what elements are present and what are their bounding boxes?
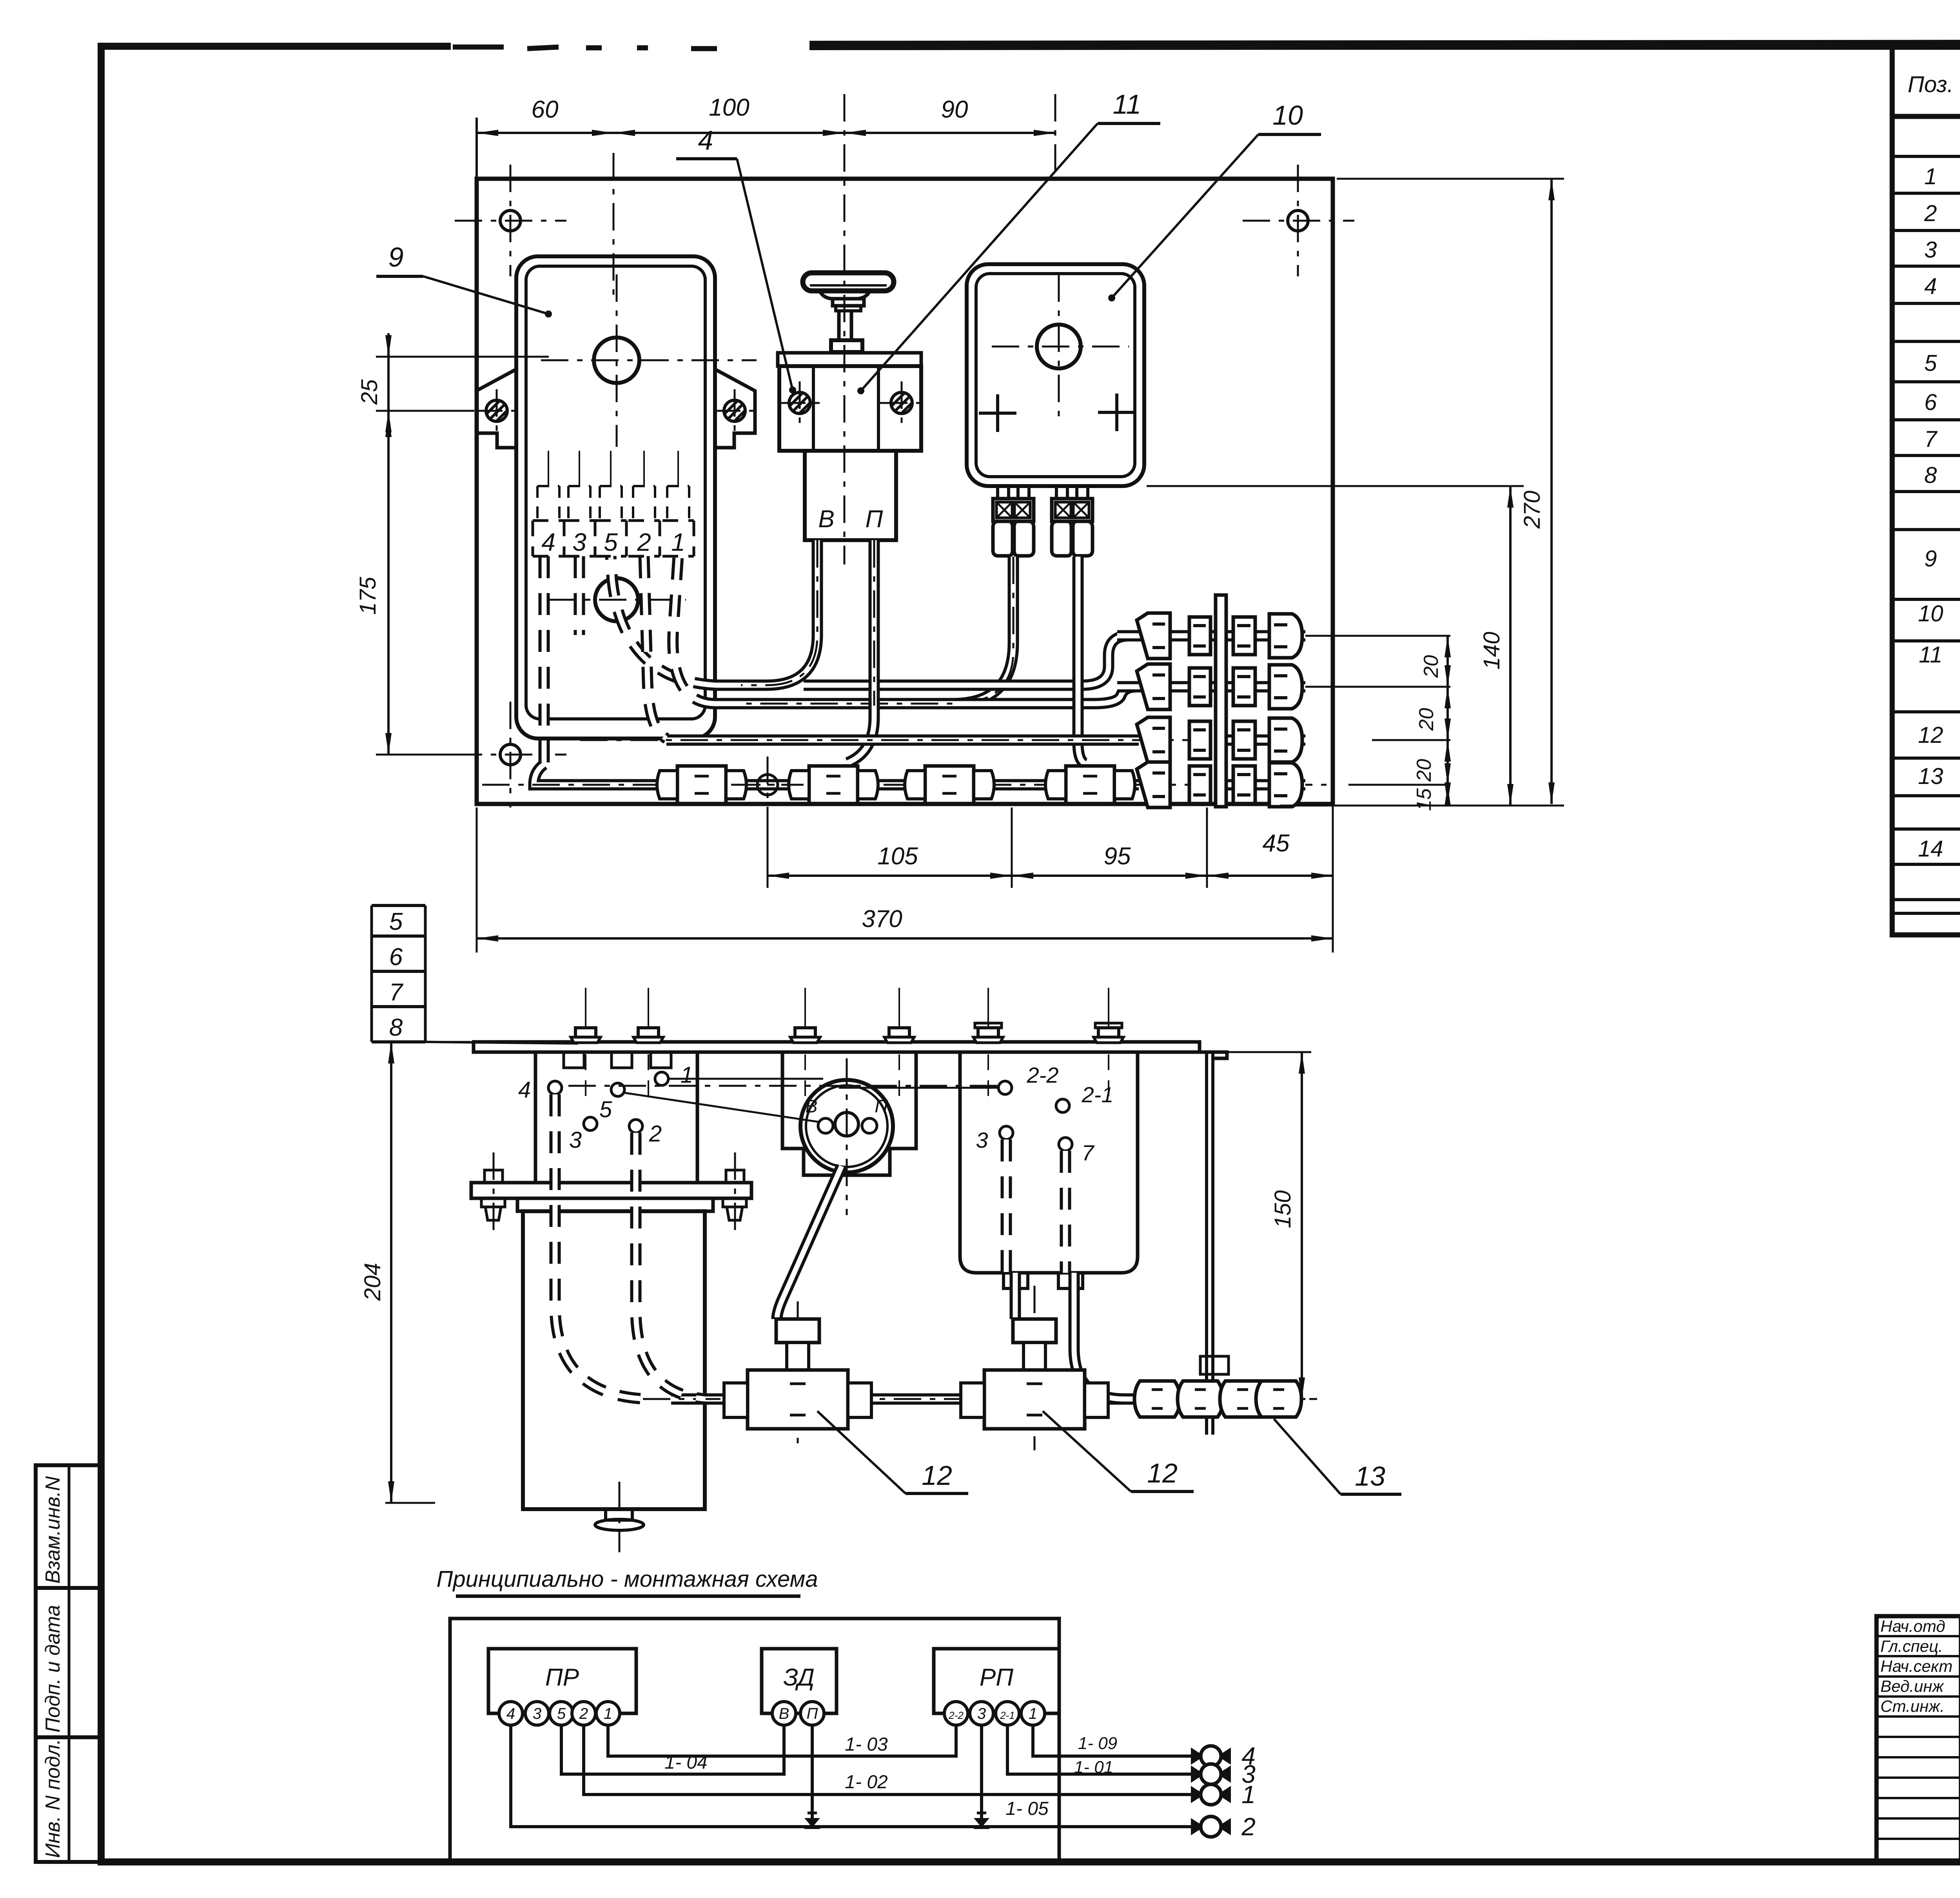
болт фланца левый: [485, 1170, 503, 1183]
клемма 3 ПР: [594, 521, 597, 556]
трубка от П к тройнику: [848, 540, 874, 763]
svg-text:Подп. и дата: Подп. и дата: [42, 1605, 64, 1733]
гайки гребенки ряд 3: [1137, 717, 1302, 763]
svg-text:2-2: 2-2: [948, 1709, 964, 1721]
ЗД вид сбоку: корпус: [782, 1052, 916, 1175]
svg-text:5: 5: [599, 1097, 612, 1122]
svg-text:Гл.спец.: Гл.спец.: [1880, 1637, 1943, 1655]
svg-text:Нач.отд: Нач.отд: [1880, 1617, 1945, 1635]
клемма РП 2-1: [996, 1702, 1019, 1725]
штуцер В: [818, 1118, 833, 1133]
штуцер РП левый: [993, 486, 1034, 556]
svg-text:20: 20: [1415, 708, 1438, 731]
клемма ЗД В: [772, 1702, 796, 1725]
svg-text:15: 15: [1413, 788, 1436, 811]
svg-text:25: 25: [357, 379, 382, 405]
гребенка ряд 4 (выход 2): [360, 179, 1564, 1861]
болт фланца правый: [726, 1170, 744, 1183]
svg-text:3: 3: [572, 528, 586, 556]
клемма РП 3: [970, 1702, 993, 1725]
задатчик ЗД (поз.11) маховик: [803, 273, 894, 291]
гайки гребенки ряд 2: [1137, 664, 1302, 709]
трубка к гребенке ряд 1: [804, 636, 1139, 685]
dim 25 (слева): [376, 356, 549, 358]
svg-text:150: 150: [1270, 1190, 1296, 1228]
svg-text:370: 370: [862, 905, 902, 933]
svg-text:95: 95: [1104, 843, 1131, 870]
штуцер 7 РП сбоку: [1059, 1138, 1072, 1151]
провод 1-02 (ПР2 - выход 1): [584, 1725, 1191, 1795]
штуцер 2-1 РП сбоку: [1056, 1099, 1069, 1112]
провод 1-05 (ПР4 - выход 2): [511, 1725, 1191, 1827]
гребенка ряд 3 (выход 1): [360, 179, 1564, 1861]
штуцер 1 ПР сбоку: [655, 1072, 668, 1085]
ответвление П на 1-05: [811, 1725, 814, 1827]
реле РП (поз.10) корпус: [967, 264, 1144, 486]
патрубки РП сбоку: [1004, 1273, 1028, 1288]
размер 204: [385, 1041, 470, 1043]
клемма ПР 5: [550, 1702, 573, 1725]
svg-text:12: 12: [922, 1460, 952, 1491]
svg-text:Инв. N подл.: Инв. N подл.: [42, 1739, 64, 1858]
svg-text:5: 5: [557, 1705, 566, 1722]
scan: heavy top frame edge right part: [809, 44, 1960, 45]
svg-text:45: 45: [1263, 830, 1290, 857]
дно ПР: [606, 1509, 632, 1520]
ЗД шток: [837, 311, 841, 340]
размер 370: [476, 807, 478, 953]
гайки гребенки ряд 4: [1137, 762, 1302, 807]
left margin stamp column: [36, 1465, 101, 1862]
плата (вид сбоку): [474, 1042, 1200, 1052]
провод 1-09 (РП1 - выход 4): [1033, 1725, 1191, 1756]
блок ПР: [488, 1649, 636, 1713]
svg-text:ПР: ПР: [545, 1664, 579, 1691]
svg-text:2-2: 2-2: [1027, 1063, 1059, 1087]
mounting hole bottom-left: [500, 744, 521, 765]
рамка схемы: [450, 1619, 1059, 1861]
svg-text:204: 204: [360, 1263, 385, 1301]
svg-text:9: 9: [1924, 546, 1937, 572]
svg-text:7: 7: [1082, 1140, 1094, 1165]
svg-text:6: 6: [389, 944, 403, 971]
svg-text:РП: РП: [980, 1664, 1013, 1691]
svg-text:11: 11: [1113, 89, 1142, 120]
трубка от штуцера РП левого к клемме 1 ПР: [716, 557, 1013, 704]
болт M6 на x=2054: [790, 988, 820, 1043]
размер 270: [1337, 178, 1564, 180]
выход 4: [1191, 1747, 1204, 1765]
болт M6 на x=1494: [571, 988, 601, 1043]
svg-text:2: 2: [1924, 201, 1937, 226]
svg-text:7: 7: [1924, 426, 1938, 452]
svg-text:1- 03: 1- 03: [845, 1734, 888, 1755]
клемма ПР 2: [572, 1702, 595, 1725]
трубка от ЗД вниз к тройнику: [777, 1166, 842, 1319]
гребенка ряд 2 (выход 3): [360, 179, 1564, 1861]
размеры 105/95/45: [767, 813, 769, 888]
svg-text:20: 20: [1420, 655, 1443, 678]
ПР вид сбоку: верхний кронштейн: [535, 1052, 697, 1183]
ПСП гайка x=3170: [1220, 1381, 1265, 1417]
svg-text:4: 4: [518, 1077, 531, 1103]
размер 140: [1147, 485, 1524, 487]
линия А: трубка 1-02 от клеммы 2 к гребенке ряд 3: [666, 735, 1139, 746]
ЗД верхняя планка: [778, 353, 921, 366]
svg-text:1- 04: 1- 04: [664, 1752, 707, 1773]
соединитель на линии B №2: [905, 766, 994, 804]
plate поз.1 outline: [477, 179, 1333, 804]
svg-text:5: 5: [1924, 350, 1937, 376]
блок РП: [934, 1649, 1059, 1713]
клемма РП 1: [1021, 1702, 1045, 1725]
svg-text:В: В: [806, 1096, 818, 1116]
svg-text:1- 01: 1- 01: [1074, 1758, 1113, 1777]
клемма 1 ПР: [693, 521, 695, 556]
svg-text:14: 14: [1918, 836, 1944, 862]
планка гребенки (поз.2): [1216, 595, 1226, 807]
штуцер П: [862, 1118, 877, 1133]
корпус ПР (цилиндр): [517, 1198, 713, 1211]
клемма 2 ПР: [659, 521, 661, 556]
клемма 4 ПР: [563, 521, 566, 556]
svg-text:1: 1: [1241, 1780, 1256, 1809]
ЗД фланец-круг: [800, 1080, 893, 1172]
svg-text:4: 4: [1924, 274, 1937, 299]
центр. линия ПР вертикальная: [613, 153, 615, 298]
svg-text:20: 20: [1413, 759, 1436, 782]
svg-text:1- 09: 1- 09: [1078, 1734, 1117, 1753]
mounting hole top-right: [1288, 210, 1308, 231]
svg-text:1: 1: [671, 528, 685, 556]
штуцер 5 ПР сбоку: [611, 1083, 624, 1096]
регулятор ПР (поз.9) корпус: [516, 256, 715, 739]
линия B: трубка 1-05 от клеммы 4 к гребенке ряд 4: [534, 764, 1139, 785]
svg-text:3: 3: [569, 1127, 582, 1153]
отверстие крепления трубки: [757, 775, 778, 795]
клемма ЗД П: [800, 1702, 824, 1725]
svg-text:10: 10: [1918, 601, 1944, 626]
РП крест правый: [1098, 411, 1136, 414]
svg-text:105: 105: [877, 843, 918, 870]
скрытая трубка от штуцера 4: [555, 1094, 647, 1399]
трубка от В к клемме 5 ПР: [716, 540, 817, 685]
болт M6 на x=2521: [973, 988, 1003, 1043]
трубка от штуцера 7 РП к ПСП: [1060, 1151, 1071, 1273]
штуцер 3 ПР сбоку: [584, 1117, 597, 1130]
тройник ПСТ8 сбоку №2: [961, 1319, 1108, 1429]
svg-text:4: 4: [506, 1705, 515, 1722]
svg-text:1: 1: [1924, 164, 1937, 189]
svg-text:4: 4: [698, 125, 713, 156]
svg-text:1- 05: 1- 05: [1005, 1798, 1049, 1819]
svg-text:11: 11: [1919, 642, 1942, 668]
svg-text:2: 2: [579, 1705, 588, 1722]
svg-text:П: П: [807, 1705, 818, 1722]
клемма РП 2-2: [944, 1702, 968, 1725]
signature table: [1877, 1616, 1960, 1862]
клемма 5 ПР: [625, 521, 628, 556]
svg-text:175: 175: [355, 577, 381, 615]
клемма ПР 4: [499, 1702, 523, 1725]
штуцер 2-2 РП сбоку: [998, 1081, 1012, 1094]
svg-text:4: 4: [541, 528, 555, 556]
магистральная трубка: [671, 1394, 1299, 1405]
ответвление РП3 на 1-05: [980, 1725, 983, 1827]
трубка от штуцера РП правого вниз к тройнику: [1078, 557, 1085, 764]
ЗД корпус: [779, 366, 921, 451]
провод 1-03 (ПР1 - РП2-2): [608, 1725, 956, 1756]
блок ЗД: [762, 1649, 837, 1713]
штуцер 3 РП сбоку: [1000, 1126, 1013, 1140]
ЗД нижний корпус: [805, 451, 896, 540]
svg-text:Нач.сект: Нач.сект: [1880, 1657, 1953, 1675]
выход 3: [1191, 1766, 1204, 1783]
РП крест левый: [979, 412, 1016, 415]
svg-text:6: 6: [1924, 390, 1937, 415]
клемма ПР 1: [596, 1702, 620, 1725]
кронштейн К-1 левый: [476, 369, 516, 448]
центр. линия ЗД: [844, 94, 846, 564]
svg-text:ЗД: ЗД: [783, 1664, 815, 1691]
svg-text:1- 02: 1- 02: [845, 1772, 887, 1793]
РП отверстие: [1037, 325, 1081, 368]
svg-text:12: 12: [1147, 1458, 1178, 1488]
ПСП гайка x=3262: [1256, 1381, 1301, 1417]
svg-text:1: 1: [681, 1062, 693, 1088]
svg-text:12: 12: [1918, 722, 1944, 748]
svg-text:9: 9: [388, 242, 404, 272]
выход 2: [1191, 1818, 1204, 1835]
кронштейн правый: [715, 369, 755, 448]
клеммная колодка ПР (штриховая) с номерами: [532, 521, 534, 556]
svg-text:П: П: [866, 506, 883, 533]
тройник ПСТ8 сбоку №1: [724, 1319, 871, 1429]
провод 1-04 (ПР5 - ЗДВ): [561, 1725, 784, 1774]
скрытая трубка от штуцера 3 РП: [1001, 1140, 1012, 1273]
размер 150: [1219, 1051, 1311, 1053]
svg-text:90: 90: [941, 96, 968, 123]
кронштейн гребенки вертикальный: [1205, 1052, 1208, 1435]
заглушка клеммы 3: [574, 556, 585, 635]
позиции 5 6 7 8: [370, 905, 373, 1042]
svg-text:13: 13: [1918, 764, 1944, 789]
соединитель на линии B №1: [657, 766, 746, 804]
svg-text:3: 3: [976, 1128, 988, 1152]
ПР большое отверстие: [594, 338, 639, 383]
svg-text:100: 100: [709, 94, 749, 121]
скрытая трубка от штуцера 2: [636, 1133, 706, 1399]
тройник ПСТ8 №2 (под РП): [1045, 766, 1135, 804]
svg-text:7: 7: [389, 979, 404, 1006]
гребенка ряд 1 (выход 4): [360, 179, 1564, 1861]
svg-text:Взам.инв.N: Взам.инв.N: [42, 1476, 64, 1584]
выход 1: [1191, 1786, 1204, 1803]
штуцер 4 ПР сбоку: [548, 1081, 562, 1094]
scan: faded/broken section of top frame edge: [451, 37, 811, 56]
ПР нижнее отверстие: [595, 578, 638, 621]
svg-text:Вед.инж: Вед.инж: [1880, 1677, 1944, 1695]
штуцер центральный: [835, 1112, 858, 1136]
svg-text:140: 140: [1479, 632, 1504, 670]
svg-text:3: 3: [533, 1705, 541, 1722]
dim 175 (слева): [387, 411, 390, 755]
провод 1-01 (РП2-1 - выход 3): [1007, 1725, 1191, 1774]
болт M6 на x=1654: [633, 988, 663, 1043]
болт M6 на x=2828: [1094, 988, 1123, 1043]
штуцер РП правый: [1052, 486, 1093, 556]
svg-text:В: В: [818, 506, 834, 533]
ПСП гайка x=3062: [1178, 1381, 1223, 1417]
svg-text:1: 1: [1029, 1705, 1037, 1722]
svg-text:2-1: 2-1: [1000, 1709, 1015, 1721]
гайки гребенки ряд 1: [1137, 613, 1302, 659]
svg-text:10: 10: [1272, 100, 1303, 131]
svg-text:60: 60: [532, 96, 559, 123]
РП вид сбоку: корпус: [960, 1052, 1138, 1273]
svg-text:5: 5: [604, 528, 618, 556]
фланец ПР: [471, 1183, 751, 1198]
трубка к гребенке ряд 2: [953, 687, 1139, 704]
ЗД тарелка маховика: [820, 292, 869, 299]
svg-text:3: 3: [1924, 237, 1937, 263]
svg-text:5: 5: [389, 908, 403, 935]
svg-text:3: 3: [977, 1705, 986, 1722]
центр. линия РП: [1054, 94, 1056, 176]
svg-text:8: 8: [1924, 463, 1937, 488]
штуцер 2 ПР сбоку: [629, 1120, 642, 1133]
svg-text:Принципиально - монтажная схе: Принципиально - монтажная схема: [436, 1566, 818, 1592]
svg-text:13: 13: [1355, 1461, 1385, 1492]
клемма ПР 3: [525, 1702, 549, 1725]
svg-text:2-1: 2-1: [1082, 1082, 1114, 1107]
svg-text:П: П: [875, 1096, 888, 1116]
svg-text:2: 2: [637, 528, 651, 556]
болт M6 на x=2294: [884, 988, 914, 1043]
svg-text:Поз.: Поз.: [1908, 72, 1954, 97]
svg-text:270: 270: [1519, 491, 1545, 529]
top dimension line 60/100/90: [477, 132, 1055, 134]
размеры гребенки 20/20/20/15: [1329, 635, 1450, 637]
svg-text:2: 2: [1241, 1813, 1256, 1841]
тройник ПСТ8 №1 (под ЗД): [789, 766, 878, 804]
ПСП гайка x=2952: [1134, 1381, 1180, 1417]
parts table: [1892, 46, 1960, 935]
svg-text:1: 1: [604, 1705, 612, 1722]
svg-text:Ст.инж.: Ст.инж.: [1880, 1697, 1945, 1715]
svg-text:В: В: [779, 1705, 789, 1722]
svg-text:8: 8: [389, 1014, 403, 1041]
svg-text:2: 2: [649, 1121, 662, 1147]
mounting hole top-left: [500, 210, 521, 231]
